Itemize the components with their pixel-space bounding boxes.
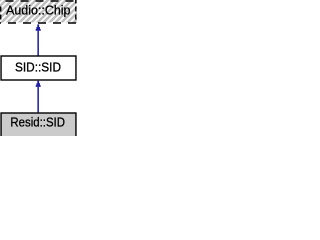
svg-text:Audio::Chip: Audio::Chip (6, 3, 71, 18)
svg-text:SID::SID: SID::SID (15, 60, 61, 75)
svg-text:Resid::SID: Resid::SID (10, 115, 65, 130)
